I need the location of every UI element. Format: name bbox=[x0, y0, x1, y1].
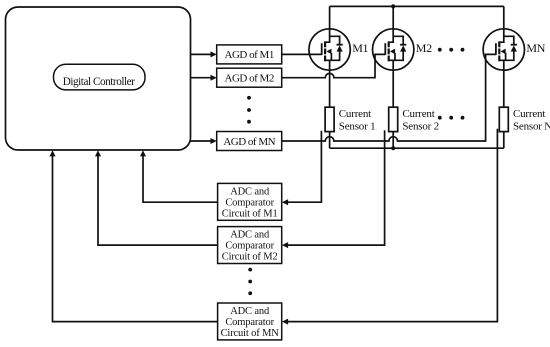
svg-text:AGD of M1: AGD of M1 bbox=[225, 49, 274, 61]
wire sensor 2 tap to ADC M2 bbox=[288, 130, 385, 245]
ellipsis between AGD boxes bbox=[247, 96, 251, 100]
transistor MN bbox=[483, 6, 524, 107]
svg-text:Sensor 2: Sensor 2 bbox=[402, 120, 439, 132]
current sensor 1 bbox=[325, 107, 334, 131]
AGD of M2 box bbox=[217, 68, 282, 87]
svg-text:Circuit of MN: Circuit of MN bbox=[221, 328, 280, 339]
svg-text:AGD of MN: AGD of MN bbox=[223, 136, 275, 148]
junction dot on drain rail at M2 bbox=[391, 4, 395, 8]
wire AGD M2 output to M2 gate with hop over M1 source bbox=[282, 54, 386, 77]
ADC and comparator circuit of M2 box bbox=[218, 227, 282, 264]
ADC and comparator circuit of M1 box bbox=[218, 183, 282, 220]
wire controller to AGD of M1 bbox=[191, 53, 212, 55]
svg-text:M1: M1 bbox=[352, 41, 368, 55]
svg-text:Comparator: Comparator bbox=[225, 198, 274, 209]
digital controller inner label box bbox=[54, 64, 146, 90]
junction dot rail at sensor 2 bbox=[391, 146, 395, 150]
digital controller block bbox=[6, 7, 191, 150]
svg-text:Circuit of M2: Circuit of M2 bbox=[222, 252, 278, 263]
wire sensor N drop bbox=[503, 132, 505, 149]
wire sensor 1 tap to ADC M1 bbox=[288, 131, 322, 202]
ADC and comparator circuit of MN box bbox=[218, 303, 282, 340]
AGD of M1 box bbox=[217, 45, 282, 64]
ellipsis between M2 and MN bbox=[438, 48, 442, 52]
current sensor N bbox=[499, 107, 508, 131]
ellipsis between ADC boxes bbox=[248, 268, 252, 272]
AGD of MN box bbox=[217, 132, 282, 151]
wire sensor N tap to ADC MN bbox=[288, 129, 498, 322]
wire controller to AGD of M2 bbox=[191, 77, 212, 79]
wire ADC M2 to controller bbox=[98, 155, 218, 245]
svg-text:Digital Controller: Digital Controller bbox=[63, 76, 135, 88]
svg-text:Current: Current bbox=[402, 108, 434, 120]
svg-text:Comparator: Comparator bbox=[225, 241, 274, 252]
wire AGD M1 output to M1 gate bbox=[282, 53, 322, 55]
wire ADC MN to controller bbox=[53, 155, 218, 321]
svg-text:Comparator: Comparator bbox=[225, 317, 274, 328]
wire controller to AGD of MN bbox=[191, 140, 212, 142]
wire ADC M1 to controller bbox=[143, 155, 218, 202]
svg-text:M2: M2 bbox=[416, 41, 432, 55]
wire sensor 2 drop bbox=[392, 132, 394, 149]
transistor M1 bbox=[309, 6, 350, 107]
svg-text:Circuit of M1: Circuit of M1 bbox=[222, 209, 278, 220]
svg-text:Sensor 1: Sensor 1 bbox=[339, 120, 376, 132]
wire AGD MN output to MN gate with hops over sensor drops bbox=[282, 54, 496, 141]
wire sensor common rail bbox=[330, 147, 504, 149]
wire sensor 1 drop bbox=[329, 132, 331, 149]
svg-text:AGD of M2: AGD of M2 bbox=[225, 73, 274, 85]
svg-text:Sensor N: Sensor N bbox=[513, 120, 550, 132]
svg-text:ADC and: ADC and bbox=[230, 187, 270, 198]
svg-text:MN: MN bbox=[526, 41, 545, 55]
svg-text:ADC and: ADC and bbox=[230, 306, 270, 317]
wire top drain rail bbox=[330, 5, 504, 7]
svg-text:Current: Current bbox=[513, 108, 545, 120]
current sensor 2 bbox=[389, 107, 398, 131]
svg-text:ADC and: ADC and bbox=[230, 230, 270, 241]
svg-text:Current: Current bbox=[339, 108, 371, 120]
transistor M2 bbox=[373, 6, 414, 107]
ellipsis between sensor 2 and sensor N bbox=[438, 116, 442, 120]
